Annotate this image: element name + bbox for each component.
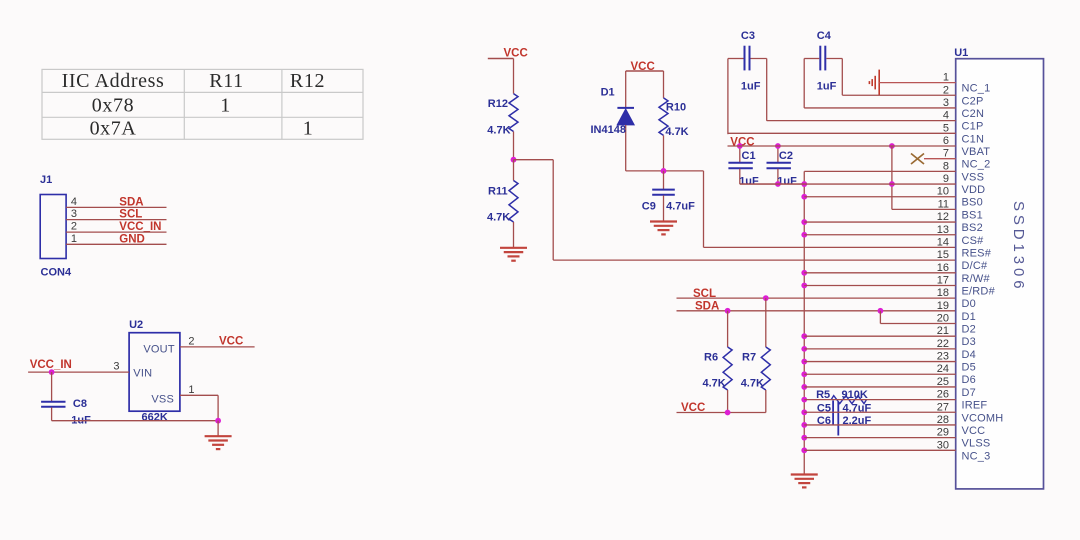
svg-text:2: 2 (188, 336, 194, 348)
svg-text:NC_2: NC_2 (962, 159, 991, 171)
junction SDA/R6 (725, 308, 731, 314)
svg-text:VCC: VCC (219, 336, 243, 348)
resistor R7 4.7K (741, 298, 771, 412)
wire R12 to junction (513, 132, 515, 160)
svg-text:R11: R11 (488, 186, 508, 198)
resistor R5 910K (816, 389, 868, 403)
svg-text:VLSS: VLSS (962, 438, 991, 450)
U1 pin 17 E/RD# (804, 274, 995, 297)
junction bus row 16 (801, 270, 807, 276)
svg-text:26: 26 (937, 389, 949, 401)
no-connect X (pin 7 NC_2) (911, 154, 924, 165)
svg-text:VCC_IN: VCC_IN (119, 221, 161, 233)
ground (main bus) (791, 473, 818, 475)
capacitor C1 1uF (728, 146, 759, 187)
diode D1 IN4148 (591, 71, 635, 171)
J1 pin 2 wire / net VCC_IN (66, 221, 166, 234)
wire VCC to R12 (513, 59, 515, 94)
U1 pin 24 D6 (804, 363, 976, 386)
svg-text:BS1: BS1 (962, 209, 983, 221)
wire C3 left to C1N (727, 59, 729, 135)
svg-text:6: 6 (943, 135, 949, 147)
junction R12/R11 (511, 157, 517, 163)
svg-text:NC_3: NC_3 (962, 450, 991, 462)
resistor R6 4.7K (703, 311, 733, 413)
svg-text:VCC: VCC (504, 48, 528, 60)
U1 pin 7 NC_2 (924, 148, 990, 171)
svg-text:8: 8 (943, 160, 949, 172)
junction bus row 13 (801, 232, 807, 238)
J1 pin 1 wire / net GND (66, 233, 166, 246)
svg-text:R12: R12 (290, 70, 325, 92)
svg-text:VCC: VCC (962, 425, 986, 437)
svg-text:21: 21 (937, 325, 949, 337)
U1 pin 11 BS1 (892, 198, 983, 221)
ground (R11) (500, 247, 527, 249)
svg-text:D2: D2 (962, 324, 976, 336)
svg-text:29: 29 (937, 427, 949, 439)
chassis symbol (pin 1 NC_1) (869, 70, 879, 96)
junction VCC_IN (49, 369, 55, 375)
U1 pin 10 BS0 (804, 186, 983, 209)
svg-text:1: 1 (188, 384, 194, 396)
J1 pin 3 wire / net SCL (66, 208, 166, 221)
U1 pin 4 C1P (767, 110, 984, 133)
capacitor C6 2.2uF (817, 402, 872, 436)
svg-text:R7: R7 (742, 352, 756, 364)
junction VDD branch (row 9) (889, 181, 895, 187)
svg-text:SSD1306: SSD1306 (1010, 201, 1027, 293)
junction bus row 26 (801, 397, 807, 403)
junction bus row 27 (801, 409, 807, 415)
svg-text:VCC_IN: VCC_IN (30, 359, 72, 371)
junction bus row 9 (801, 181, 807, 187)
U1 pin 14 RES# (937, 236, 992, 259)
svg-text:NC_1: NC_1 (962, 83, 991, 95)
svg-text:CS#: CS# (962, 235, 985, 247)
svg-text:1: 1 (943, 72, 949, 84)
svg-text:D5: D5 (962, 362, 976, 374)
ground (U2) (205, 421, 232, 449)
svg-text:C3: C3 (741, 30, 755, 42)
U2 pin 1 wire (VSS) (180, 384, 218, 421)
U2 pin 2 wire to VCC (180, 336, 255, 348)
U1 pin 13 CS# (804, 224, 984, 247)
svg-text:VIN: VIN (133, 368, 152, 380)
junction bus row 25 (801, 384, 807, 390)
svg-text:2: 2 (943, 84, 949, 96)
U1 pin 5 C1N (728, 122, 984, 145)
U1 pin 23 D5 (804, 351, 976, 374)
regulator U2 662K (129, 319, 180, 424)
svg-text:U1: U1 (954, 47, 968, 59)
junction VCC branch (row 6) (889, 143, 895, 149)
junction SDA branch (878, 308, 884, 314)
svg-text:662K: 662K (142, 412, 168, 424)
capacitor C8 1uF (41, 372, 91, 426)
svg-text:R6: R6 (704, 352, 718, 364)
junction SCL/R7 (763, 295, 769, 301)
resistor R11 4.7K (487, 160, 518, 224)
ground (C9) (650, 220, 677, 222)
svg-text:22: 22 (937, 338, 949, 350)
capacitor C2 1uF (767, 146, 798, 187)
connector J1 (40, 174, 72, 279)
U1 pin 1 NC_1 (879, 72, 990, 95)
wire D1/R10 junction row (626, 170, 704, 172)
U1 pin 20 D2 (880, 313, 976, 336)
resistor R12 4.7K (487, 94, 518, 137)
svg-text:BS2: BS2 (962, 222, 983, 234)
svg-text:C2P: C2P (962, 95, 984, 107)
svg-text:IREF: IREF (962, 400, 988, 412)
svg-text:0x78: 0x78 (92, 95, 134, 117)
svg-text:IN4148: IN4148 (591, 124, 626, 136)
svg-text:15: 15 (937, 249, 949, 261)
junction bus row 29 (801, 435, 807, 441)
svg-text:9: 9 (943, 173, 949, 185)
U1 pin 21 D3 (804, 325, 976, 348)
svg-text:3: 3 (71, 208, 77, 220)
svg-text:RES#: RES# (962, 247, 992, 259)
svg-text:1: 1 (303, 118, 314, 140)
svg-text:D3: D3 (962, 336, 976, 348)
power VCC (pullup rail) (677, 402, 766, 414)
svg-text:4.7uF: 4.7uF (666, 200, 695, 212)
svg-text:CON4: CON4 (41, 267, 72, 279)
svg-text:GND: GND (119, 233, 145, 245)
svg-text:5: 5 (943, 122, 949, 134)
svg-text:16: 16 (937, 262, 949, 274)
junction C2 bottom (775, 181, 781, 187)
U1 pin 15 D/C# (937, 249, 988, 272)
junction bus row 23 (801, 359, 807, 365)
svg-text:0x7A: 0x7A (90, 118, 137, 140)
capacitor C9 4.7uF (642, 171, 695, 221)
svg-text:D1: D1 (962, 311, 976, 323)
svg-text:D0: D0 (962, 298, 976, 310)
U1 pin 27 VCOMH (804, 401, 1003, 424)
svg-text:19: 19 (937, 300, 949, 312)
svg-text:C8: C8 (73, 398, 87, 410)
power VCC (R12 branch) (488, 48, 528, 60)
svg-text:30: 30 (937, 439, 949, 451)
U1 pin 28 VCC (804, 414, 985, 437)
svg-text:VDD: VDD (962, 184, 986, 196)
svg-text:4.7K: 4.7K (487, 211, 510, 223)
U1 pin 2 C2P (842, 84, 983, 107)
svg-text:4: 4 (71, 196, 77, 208)
svg-text:4.7K: 4.7K (741, 377, 764, 389)
svg-text:SCL: SCL (119, 209, 142, 221)
junction C2 top (775, 143, 781, 149)
svg-text:R10: R10 (666, 102, 686, 114)
U1 pin 6 VBAT (728, 135, 991, 158)
wire C4 left to C2N (803, 59, 805, 108)
junction bus row 28 (801, 422, 807, 428)
svg-text:C2N: C2N (962, 108, 985, 120)
svg-text:BS0: BS0 (962, 197, 983, 209)
IIC address table (42, 69, 363, 139)
svg-text:13: 13 (937, 224, 949, 236)
svg-text:D7: D7 (962, 387, 976, 399)
svg-text:SDA: SDA (119, 196, 143, 208)
power VCC (D1/R10 branch) (626, 61, 664, 73)
svg-text:C1: C1 (742, 150, 756, 162)
svg-text:4.7K: 4.7K (665, 126, 688, 138)
junction bus row 10 (801, 194, 807, 200)
svg-text:11: 11 (938, 198, 949, 210)
U1 pin 18 D0 (937, 287, 976, 310)
junction U2 ground (215, 418, 221, 424)
svg-text:18: 18 (937, 287, 949, 299)
svg-text:4: 4 (943, 110, 949, 122)
wire SDA to D2 (879, 311, 881, 324)
net SCL wire (677, 288, 956, 300)
svg-text:25: 25 (937, 376, 949, 388)
svg-text:4.7K: 4.7K (487, 125, 510, 137)
svg-text:R/W#: R/W# (962, 273, 991, 285)
wire C8 to U2 ground rail (52, 420, 219, 422)
junction bus row 22 (801, 346, 807, 352)
svg-text:IIC Address: IIC Address (62, 70, 165, 92)
svg-text:14: 14 (937, 236, 949, 248)
svg-text:VBAT: VBAT (962, 146, 991, 158)
svg-text:D1: D1 (601, 87, 615, 99)
U1 pin 8 VSS (804, 160, 984, 183)
U1 pin 9 VDD (740, 173, 986, 196)
node VCC_IN / U2 pin 3 wire (28, 359, 129, 373)
svg-text:C1N: C1N (962, 133, 985, 145)
junction bus row 24 (801, 371, 807, 377)
svg-text:24: 24 (937, 363, 949, 375)
capacitor C5 4.7uF (817, 401, 872, 426)
wire RES# row (pin 14) (704, 246, 956, 248)
wire R11 to ground (513, 222, 515, 247)
wire C4 right to C2P (841, 59, 843, 96)
svg-text:J1: J1 (40, 174, 52, 186)
svg-text:1: 1 (71, 233, 77, 245)
svg-text:R11: R11 (209, 70, 243, 92)
svg-text:3: 3 (943, 97, 949, 109)
svg-text:17: 17 (937, 274, 949, 286)
svg-text:C1P: C1P (962, 121, 984, 133)
svg-text:7: 7 (943, 148, 949, 160)
IC U1 SSD1306 (954, 47, 1043, 489)
svg-text:C4: C4 (817, 30, 832, 42)
wire capacitor bottom rail (740, 183, 804, 185)
capacitor C4 1uF (804, 30, 842, 92)
svg-text:20: 20 (937, 313, 949, 325)
U1 pin 16 R/W# (804, 262, 990, 285)
junction bus row 12 (801, 219, 807, 225)
svg-text:D6: D6 (962, 374, 976, 386)
svg-text:27: 27 (937, 401, 949, 413)
wire ground bus vertical (803, 171, 805, 474)
svg-text:VOUT: VOUT (143, 344, 174, 356)
net SDA wire (677, 301, 956, 313)
svg-text:10: 10 (937, 186, 949, 198)
U1 pin 29 VLSS (804, 427, 990, 450)
U1 pin 25 D7 (804, 376, 976, 399)
svg-text:VSS: VSS (962, 171, 985, 183)
junction bus row 30 (801, 447, 807, 453)
junction bus row 17 (801, 283, 807, 289)
J1 pin 4 wire / net SDA (66, 196, 166, 209)
svg-text:VCOMH: VCOMH (962, 412, 1004, 424)
svg-text:1: 1 (220, 95, 231, 117)
junction bus row 21 (801, 333, 807, 339)
svg-text:C9: C9 (642, 200, 656, 212)
junction C1 top (737, 143, 743, 149)
U1 pin 3 C2N (804, 97, 984, 120)
svg-text:3: 3 (113, 361, 119, 373)
resistor R10 4.7K (659, 71, 689, 171)
svg-text:2: 2 (71, 221, 77, 233)
junction D1/R10/C9 (661, 168, 667, 174)
U1 pin 19 D1 (937, 300, 976, 323)
svg-text:R12: R12 (488, 98, 508, 110)
wire junction to RES# line (703, 171, 705, 248)
svg-text:U2: U2 (129, 319, 143, 331)
U1 pin 22 D4 (804, 338, 976, 361)
svg-text:D4: D4 (962, 349, 976, 361)
svg-text:12: 12 (937, 211, 949, 223)
wire VCC branch vertical to BS1 (891, 146, 893, 209)
svg-text:1uF: 1uF (739, 175, 759, 187)
junction R6 bottom (725, 410, 731, 416)
svg-text:28: 28 (937, 414, 949, 426)
capacitor C3 1uF (728, 30, 767, 92)
svg-text:VSS: VSS (151, 394, 174, 406)
U1 pin 12 BS2 (804, 211, 983, 234)
svg-text:4.7K: 4.7K (703, 377, 726, 389)
svg-text:E/RD#: E/RD# (962, 285, 996, 297)
wire C3 right to C1P (766, 59, 768, 121)
svg-text:23: 23 (937, 351, 949, 363)
svg-text:1uF: 1uF (817, 80, 837, 92)
svg-text:D/C#: D/C# (962, 260, 989, 272)
U1 pin 26 IREF (804, 389, 987, 412)
wire D/C# row (pin 15) (553, 259, 956, 261)
svg-text:C2: C2 (779, 150, 793, 162)
svg-text:1uF: 1uF (741, 80, 761, 92)
U1 pin 30 NC_3 (804, 439, 990, 462)
wire junction to D/C# line (514, 160, 554, 260)
